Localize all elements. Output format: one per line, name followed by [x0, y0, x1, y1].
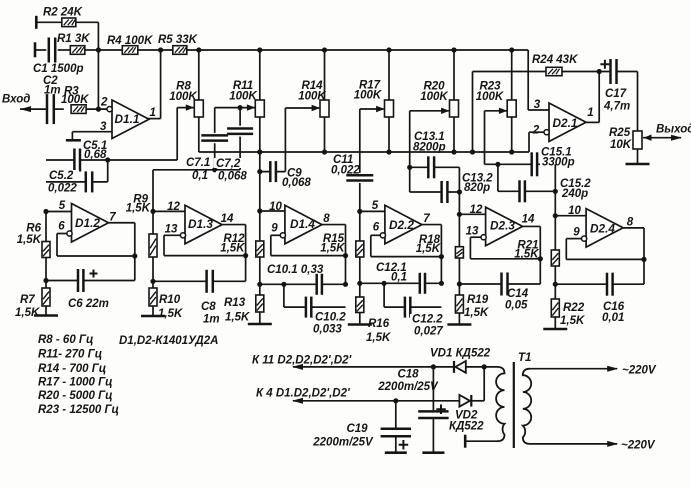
- junction feedback/output of D1.3: [243, 253, 248, 258]
- transformer T1 secondary winding: [496, 367, 504, 441]
- pin 1 output of D1.1 wire: [148, 50, 160, 119]
- resistor R24 43K: [532, 54, 578, 76]
- svg-text:6: 6: [373, 222, 380, 234]
- potentiometer R23 100K: [476, 50, 516, 117]
- wire VD1 to transformer node: [467, 366, 498, 368]
- wire R25 to ground: [637, 149, 639, 164]
- junction C13.2 / band5 vertical: [457, 189, 462, 194]
- pin 13 of D1.3 (inverting, circle): [165, 224, 186, 238]
- svg-text:R4 100K: R4 100K: [107, 35, 153, 47]
- junction feedback/output of D2.2: [439, 254, 444, 259]
- junction pin input node of D2.3: [457, 212, 462, 217]
- wire primary bottom to mains: [530, 440, 656, 452]
- junction feedback/output of D2.4: [641, 257, 646, 262]
- svg-text:14: 14: [522, 214, 535, 226]
- wire pin 7 output of D1.2: [109, 212, 135, 281]
- wire C1-R1 row: [35, 49, 98, 51]
- diode VD2 КД522: [449, 395, 484, 433]
- svg-text:C7.1: C7.1: [186, 157, 210, 169]
- svg-text:C10.1 0,33: C10.1 0,33: [267, 264, 324, 276]
- junction band3 vertical / C9: [257, 152, 262, 211]
- wire R20 bottom to row: [453, 117, 455, 152]
- svg-text:КД522: КД522: [449, 421, 484, 433]
- svg-text:14: 14: [221, 213, 234, 225]
- svg-text:100K: 100K: [354, 90, 382, 102]
- junction on row: [509, 149, 514, 154]
- svg-text:100K: 100K: [298, 91, 326, 103]
- junction on row: [470, 149, 475, 154]
- wire band2 cap collect line: [153, 170, 240, 212]
- wire R8 wiper: [177, 104, 194, 160]
- resistor R12 1,5K: [220, 233, 264, 257]
- wire pin 12 of D1.3: [153, 210, 185, 212]
- wire R2 feedback row: [36, 22, 98, 50]
- wire band vertical through R21: [554, 216, 556, 329]
- junction on row: [322, 149, 327, 154]
- pin 3 of D1.1 wire to ground: [72, 121, 112, 140]
- op-amp D2.2: [385, 205, 422, 244]
- junction pin input node of D1.3: [150, 209, 155, 214]
- note frequency list: [38, 334, 119, 416]
- capacitor C17 4,7m (polarized): [600, 59, 630, 113]
- wire R14 bottom to row: [324, 117, 326, 152]
- wire C15.2 line: [498, 190, 555, 192]
- resistor R5: [138, 34, 198, 54]
- node A (R1/R2/R3 junction to pin 2): [96, 47, 101, 111]
- junction C13.1 branch: [407, 165, 412, 170]
- wire pin 6 feedback loop of D2.2: [371, 235, 442, 256]
- svg-text:C19: C19: [346, 423, 368, 435]
- resistor R2: [43, 7, 83, 27]
- svg-text:3300p: 3300p: [542, 157, 575, 169]
- svg-text:R13: R13: [224, 297, 246, 309]
- pin 12 label: [470, 204, 483, 216]
- svg-text:1,5K: 1,5K: [158, 308, 183, 320]
- wire D2.4 bottom cap row: [555, 283, 644, 285]
- svg-text:C6 22m: C6 22m: [68, 298, 109, 310]
- svg-text:5: 5: [59, 200, 66, 212]
- svg-text:C8: C8: [201, 301, 216, 313]
- ground below R25: [626, 163, 650, 166]
- pin 9 of D1.4 (inverting, circle): [271, 223, 285, 238]
- svg-text:100K: 100K: [420, 91, 448, 103]
- wire pin 6 feedback loop of D1.2: [57, 234, 135, 257]
- wire pin 5 of D1.2: [46, 211, 72, 213]
- junction bus/R14: [322, 47, 327, 52]
- svg-text:C1 1500p: C1 1500p: [33, 63, 84, 75]
- svg-text:1,5K: 1,5K: [126, 203, 151, 215]
- capacitor C7.2 0,068 (hanging): [227, 108, 253, 170]
- potentiometer R25 10K: [609, 127, 642, 151]
- svg-text:1,5K: 1,5K: [514, 249, 539, 261]
- junction cap row left of D2.4: [553, 282, 558, 287]
- svg-text:R6: R6: [26, 223, 41, 235]
- svg-text:D1,D2-К1401УД2А: D1,D2-К1401УД2А: [119, 335, 218, 347]
- svg-text:~220V: ~220V: [622, 365, 657, 377]
- capacitor C19 2200m/25V (electrolytic): [312, 401, 411, 453]
- svg-text:7: 7: [109, 212, 116, 224]
- svg-text:R1 3K: R1 3K: [57, 33, 90, 45]
- svg-text:C14: C14: [507, 288, 529, 300]
- resistor R15 1,5K: [320, 233, 364, 257]
- junction bus/R8: [196, 47, 201, 52]
- capacitor C6 22m: [68, 269, 109, 310]
- svg-text:10K: 10K: [610, 139, 632, 151]
- capacitor C14 0,05: [501, 273, 529, 312]
- svg-text:0,1: 0,1: [391, 272, 407, 284]
- pin 2 of D1.1 (inverting, circle): [100, 97, 112, 112]
- svg-text:100K: 100K: [229, 91, 257, 103]
- capacitor C10.1 0,33: [267, 264, 324, 295]
- node B (R4/R5/D1.1-out junction): [158, 47, 163, 52]
- wire pin 1 output of D2.1: [586, 72, 599, 123]
- svg-text:R20 - 5000 Гц: R20 - 5000 Гц: [38, 390, 113, 402]
- svg-text:R11- 270 Гц: R11- 270 Гц: [38, 349, 102, 361]
- wire secondary bottom to tick: [465, 440, 497, 442]
- capacitor C13.1 8200p: [413, 131, 446, 178]
- svg-text:D2.3: D2.3: [490, 219, 515, 233]
- wire D1.4 bottom cap row: [260, 283, 346, 285]
- svg-text:D1.2: D1.2: [75, 216, 100, 230]
- wire pin 10 of D2.4: [555, 215, 586, 217]
- note IC type: [119, 335, 218, 347]
- potentiometer R17 100K: [354, 50, 394, 117]
- svg-text:0,068: 0,068: [218, 171, 247, 183]
- svg-text:13: 13: [466, 226, 479, 238]
- capacitor C1 1500p: [33, 38, 84, 76]
- op-amp D2.1: [549, 103, 586, 142]
- wire C9 line: [260, 171, 286, 173]
- capacitor C18 2200m/25V (electrolytic): [377, 367, 448, 453]
- wire pin 13 feedback loop of D2.3: [470, 237, 540, 259]
- svg-text:2: 2: [100, 97, 108, 109]
- svg-text:8: 8: [323, 213, 330, 225]
- wire D1.2 bottom cap row: [46, 280, 135, 282]
- capacitor C8 1m: [201, 270, 220, 326]
- wire C5.2 line: [46, 181, 108, 183]
- resistor R4: [98, 35, 153, 54]
- wire D2.2 bottom cap row: [360, 282, 442, 284]
- svg-text:C5.2: C5.2: [49, 170, 74, 182]
- label K11 net: [252, 355, 353, 367]
- svg-text:C7,2: C7,2: [216, 158, 241, 170]
- svg-text:2200m/25V: 2200m/25V: [312, 437, 374, 449]
- svg-text:7: 7: [423, 213, 430, 225]
- op-amp D1.4: [285, 205, 322, 244]
- svg-text:T1: T1: [518, 352, 531, 364]
- svg-text:R24 43K: R24 43K: [532, 54, 578, 66]
- svg-text:100K: 100K: [476, 91, 504, 103]
- svg-text:1,5K: 1,5K: [320, 243, 345, 255]
- svg-text:3: 3: [534, 99, 541, 111]
- junction C15.2 branch: [495, 162, 500, 192]
- junction C10.2 loop right: [343, 282, 348, 287]
- svg-text:4,7m: 4,7m: [603, 101, 630, 113]
- wire pin 8 output of D2.4: [623, 217, 644, 285]
- svg-text:9: 9: [271, 223, 278, 235]
- svg-text:2: 2: [532, 125, 540, 137]
- svg-text:8200p: 8200p: [413, 142, 446, 154]
- svg-text:0,068: 0,068: [282, 177, 311, 189]
- svg-text:0,022: 0,022: [331, 165, 360, 177]
- input arrow Вход: [2, 94, 31, 113]
- wire pin 8 output of D1.4: [322, 213, 346, 284]
- wire band vertical through R12: [259, 211, 261, 324]
- wire pin 13 feedback loop of D1.3: [164, 235, 246, 255]
- capacitor C9 0,068: [269, 161, 311, 189]
- svg-text:1,5K: 1,5K: [366, 332, 391, 344]
- svg-text:1m: 1m: [44, 85, 61, 97]
- junction pin input node of D1.2: [43, 209, 48, 214]
- wire primary top to mains: [530, 365, 657, 377]
- label C7.2: [214, 158, 247, 183]
- junction cap row left of D2.3: [457, 281, 462, 286]
- wire R17 wiper: [360, 106, 385, 112]
- wire R8 bottom to row: [198, 117, 200, 152]
- junction output/R24/C17: [597, 69, 602, 74]
- pin 5 label: [372, 200, 379, 212]
- junction bus/R11: [257, 47, 262, 52]
- svg-text:R5 33K: R5 33K: [158, 34, 198, 46]
- resistor R18 1,5K: [416, 234, 464, 258]
- svg-text:R22: R22: [563, 302, 585, 314]
- ground tick C1 left end: [34, 42, 37, 57]
- wire band vertical through R15: [359, 211, 361, 324]
- wire pin 9 feedback loop of D2.4: [566, 239, 644, 260]
- ground below R16: [348, 323, 372, 326]
- svg-text:8: 8: [627, 217, 634, 229]
- ground (pin 3 of D1.1): [66, 139, 81, 142]
- svg-text:13: 13: [165, 224, 178, 236]
- junction on row: [257, 149, 262, 154]
- pin 2 of D2.1 (inverting, circle): [532, 125, 549, 137]
- svg-text:R10: R10: [159, 294, 181, 306]
- diode VD1 КД522: [430, 348, 491, 373]
- svg-text:100K: 100K: [169, 91, 197, 103]
- junction C19 on negative rail: [393, 398, 398, 403]
- wire pin 14 output of D1.3: [221, 213, 246, 281]
- svg-text:0,027: 0,027: [414, 326, 443, 338]
- wire R24 feedback line: [473, 72, 600, 153]
- op-amp D1.1: [112, 100, 149, 139]
- svg-text:100K: 100K: [61, 94, 89, 106]
- resistor R3 100K: [61, 86, 89, 114]
- junction feedback/output of D1.2: [132, 253, 137, 258]
- junction C10.2 branch left: [281, 282, 286, 287]
- svg-text:D2.2: D2.2: [389, 218, 414, 232]
- svg-text:D2.4: D2.4: [590, 222, 615, 236]
- svg-text:5: 5: [372, 200, 379, 212]
- resistor R16 1,5K: [356, 297, 391, 344]
- wire band5 vertical: [458, 167, 460, 214]
- junction pin input node of D1.4: [257, 208, 262, 213]
- svg-text:1,5K: 1,5K: [560, 315, 585, 327]
- junction C12.2 loop right: [439, 281, 444, 286]
- pin 10 label: [269, 201, 282, 213]
- svg-text:0,1: 0,1: [192, 170, 208, 182]
- wire input row: [20, 108, 107, 110]
- svg-text:0,033: 0,033: [313, 324, 342, 336]
- wire pin 14 output of D2.3: [522, 214, 541, 285]
- wire C17 to R25: [637, 72, 639, 132]
- svg-text:1,5K: 1,5K: [220, 243, 245, 255]
- resistor R1: [57, 33, 90, 54]
- junction feedback/output of D2.3: [538, 256, 543, 261]
- svg-text:~220V: ~220V: [621, 440, 656, 452]
- wire band vertical through R9: [152, 211, 154, 316]
- potentiometer R8 100K: [169, 50, 203, 117]
- resistor R19 1,5K: [455, 294, 489, 319]
- junction feedback/output of D1.4: [343, 253, 348, 258]
- svg-text:2200m/25V: 2200m/25V: [377, 381, 439, 393]
- label C7.1: [184, 157, 212, 182]
- svg-text:R14 - 700 Гц: R14 - 700 Гц: [38, 363, 106, 375]
- ground below R22: [543, 328, 567, 331]
- wire C10.2 loop: [284, 284, 346, 307]
- svg-text:R2 24K: R2 24K: [43, 7, 83, 19]
- ground tick R2 left end: [35, 16, 38, 29]
- junction bus/R17: [386, 47, 391, 52]
- svg-text:D2.1: D2.1: [553, 116, 578, 130]
- svg-text:3: 3: [100, 121, 107, 133]
- op-amp D2.3: [486, 207, 523, 246]
- ground below R10: [141, 315, 165, 318]
- transformer T1 core: [514, 352, 532, 448]
- capacitor C7.1 0,1 (hanging): [201, 108, 228, 170]
- svg-text:6: 6: [58, 221, 65, 233]
- wire to C17: [599, 71, 637, 73]
- resistor R7 1,5K: [15, 288, 50, 319]
- potentiometer R11 100K: [229, 50, 264, 117]
- ground below R13: [248, 323, 272, 326]
- svg-text:1,5K: 1,5K: [416, 243, 441, 255]
- junction pin input node of D2.2: [357, 209, 362, 214]
- resistor R21 1,5K: [514, 240, 559, 267]
- junction cap row left of D1.4: [257, 282, 262, 287]
- svg-text:0,68: 0,68: [84, 149, 107, 161]
- ground below C19: [385, 451, 407, 454]
- capacitor C13.2 820p: [441, 172, 494, 203]
- wire positive rail K11: [292, 364, 454, 370]
- ground below C18: [422, 451, 444, 454]
- svg-text:R8 - 60 Гц: R8 - 60 Гц: [38, 334, 93, 346]
- svg-text:1,5K: 1,5K: [15, 307, 40, 319]
- wire R25 wiper to output: [643, 135, 682, 141]
- svg-text:R23 - 12500 Гц: R23 - 12500 Гц: [38, 404, 119, 416]
- svg-text:Выход: Выход: [656, 124, 691, 136]
- pin 5 label: [59, 200, 66, 212]
- wire top bus: [187, 50, 528, 110]
- resistor R6 1,5K: [17, 223, 50, 258]
- wire band6 vertical: [554, 164, 556, 215]
- wire R11 wiper: [215, 104, 256, 110]
- wire R20 wiper: [410, 108, 450, 192]
- svg-text:0,05: 0,05: [505, 300, 528, 312]
- svg-text:0,022: 0,022: [48, 183, 77, 195]
- wire C12.2 loop: [384, 283, 441, 307]
- svg-text:10: 10: [568, 205, 581, 217]
- capacitor C2 1m: [43, 75, 61, 124]
- svg-text:1,5K: 1,5K: [17, 234, 42, 246]
- svg-text:К 4 D1.D2,D2',D2': К 4 D1.D2,D2',D2': [256, 388, 351, 400]
- wire pin 10 of D1.4: [260, 210, 285, 212]
- junction C15.2 / band6 vertical: [553, 189, 558, 194]
- svg-text:0,01: 0,01: [602, 312, 624, 324]
- capacitor C16 0,01: [602, 273, 625, 324]
- junction VD1/VD2/T1 node: [482, 364, 487, 401]
- svg-text:1,5K: 1,5K: [225, 312, 250, 324]
- svg-text:1,5K: 1,5K: [464, 307, 489, 319]
- wire C13.1 line: [410, 166, 460, 168]
- svg-text:C10.2: C10.2: [315, 312, 346, 324]
- wire pot-bottom row (inverting net): [199, 151, 529, 153]
- capacitor C12.1 0,1: [376, 262, 426, 294]
- capacitor C5.2 0,022: [47, 170, 93, 195]
- junction wiper/C7.2: [238, 105, 243, 110]
- label K4 net: [256, 388, 351, 400]
- wire C13.2 line: [410, 191, 460, 193]
- capacitor C5.1 0,68: [73, 140, 111, 172]
- svg-text:1m: 1m: [203, 314, 220, 326]
- wire C15.1 line: [485, 163, 556, 165]
- svg-text:R19: R19: [467, 294, 489, 306]
- svg-text:1: 1: [150, 107, 156, 119]
- svg-text:VD1 КД522: VD1 КД522: [430, 348, 491, 360]
- svg-text:10: 10: [269, 201, 282, 213]
- junction on row: [451, 149, 456, 154]
- pin 13 of D2.3 (inverting, circle): [466, 226, 487, 240]
- capacitor C15.2 240p: [519, 178, 593, 202]
- ground below R19: [447, 323, 471, 326]
- wire pin 12 of D2.3: [459, 213, 485, 215]
- resistor R22 1,5K: [551, 299, 585, 327]
- pin 12 label: [167, 201, 180, 213]
- capacitor C10.2 0,033: [305, 297, 346, 336]
- op-amp D1.2: [72, 204, 109, 243]
- svg-text:D1.4: D1.4: [290, 217, 315, 231]
- capacitor C12.2 0,027: [404, 297, 443, 338]
- wire pin 3 of D2.1 from bus: [528, 99, 549, 111]
- svg-text:К 11 D2,D2,D2',D2': К 11 D2,D2,D2',D2': [252, 355, 353, 367]
- output label Выход: [656, 124, 691, 136]
- svg-text:C18: C18: [397, 369, 419, 381]
- pin 9 of D2.4 (inverting, circle): [573, 227, 586, 242]
- svg-text:D1.1: D1.1: [115, 112, 140, 126]
- svg-text:R25: R25: [609, 127, 631, 139]
- wire band vertical through R6: [45, 212, 47, 316]
- junction bus/R23: [509, 47, 514, 52]
- transformer T1 primary winding: [523, 369, 531, 444]
- wire R11 bottom to row: [259, 117, 261, 152]
- wire R14 wiper: [285, 105, 320, 172]
- svg-text:240p: 240p: [561, 188, 588, 200]
- ground tick secondary: [464, 435, 467, 448]
- wire pin 2 of D2.1 to row: [529, 132, 544, 152]
- wire R23 wiper: [485, 108, 508, 165]
- resistor R10 1,5K: [149, 288, 183, 320]
- wire R23 bottom to row: [511, 117, 513, 152]
- junction C5.2 branch: [105, 157, 110, 182]
- wire negative rail K4: [292, 398, 459, 404]
- junction on row: [386, 149, 391, 154]
- op-amp D2.4: [586, 209, 623, 248]
- junction C7.1 on collect line: [212, 167, 217, 172]
- svg-text:9: 9: [573, 227, 580, 239]
- svg-text:R17 - 1000 Гц: R17 - 1000 Гц: [38, 377, 113, 389]
- resistor R9 1,5K: [126, 194, 157, 258]
- junction C18 on positive rail: [431, 364, 436, 369]
- junction cap row left of D1.2: [43, 278, 48, 283]
